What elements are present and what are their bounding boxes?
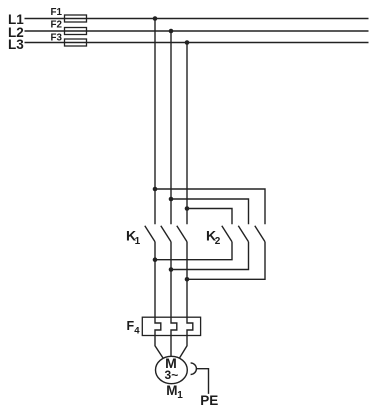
- svg-text:L3: L3: [8, 37, 24, 52]
- svg-text:1: 1: [135, 236, 141, 247]
- svg-text:1: 1: [177, 390, 183, 401]
- junction on L1: [153, 16, 158, 21]
- wire phase W drop (L3 to K1 contact): [186, 43, 188, 225]
- junction K2 return tap 1: [153, 257, 158, 262]
- svg-text:F: F: [127, 319, 135, 333]
- contactor K2 contact pole 2: [238, 226, 248, 242]
- wire K1 pole 1 to F4: [154, 242, 156, 318]
- svg-text:4: 4: [134, 325, 140, 336]
- motor M1 designator: [166, 383, 183, 401]
- junction on L2: [169, 29, 174, 34]
- contactor K2 contact pole 1: [222, 226, 232, 242]
- wire PE: [196, 369, 208, 394]
- wire L2 bus: [25, 30, 369, 32]
- contactor K1 contact pole 2: [161, 226, 171, 242]
- svg-text:3~: 3~: [165, 368, 179, 382]
- fuse F2: [51, 19, 87, 34]
- overload relay F4 heater element 2: [171, 317, 177, 335]
- wire K2 middle contact return to phase V: [171, 242, 249, 270]
- wire phase V drop (L2 to K1 contact): [170, 31, 172, 224]
- wire phase U drop (L1 to K1 contact): [154, 19, 156, 225]
- wire F4 to motor terminal U: [155, 336, 163, 359]
- overload relay F4 heater element 1: [155, 317, 161, 335]
- svg-text:F3: F3: [51, 32, 63, 43]
- wire K2 left contact return to phase U: [155, 242, 232, 260]
- motor M1 circle: [156, 356, 188, 383]
- wire L1 bus: [25, 18, 369, 20]
- wire crossover L2 to K2 middle contact: [171, 199, 249, 224]
- wire K2 right contact return to phase W: [187, 242, 265, 280]
- svg-text:2: 2: [215, 236, 221, 247]
- overload relay F4 box: [142, 317, 200, 335]
- svg-text:M: M: [166, 383, 177, 398]
- svg-text:F2: F2: [51, 19, 63, 30]
- PE terminal arc: [191, 363, 197, 375]
- wire F4 to motor terminal W: [180, 336, 188, 359]
- junction crossover tap 3: [185, 206, 190, 211]
- junction on L3: [185, 40, 190, 45]
- wire L3 bus: [25, 42, 369, 44]
- wire crossover L3 to K2 left contact: [187, 209, 232, 225]
- junction K2 return tap 3: [185, 277, 190, 282]
- overload relay F4 heater element 3: [187, 317, 193, 335]
- wire K1 pole 3 to F4: [186, 242, 188, 318]
- contactor K1 contact pole 1: [145, 226, 155, 242]
- overload relay F4 label: [127, 319, 141, 336]
- junction crossover tap 1: [153, 187, 158, 192]
- contactor K1 label: [126, 228, 141, 248]
- wire K1 pole 2 to F4: [170, 242, 172, 318]
- contactor K1 contact pole 3: [177, 226, 187, 242]
- contactor K2 label: [206, 228, 221, 248]
- junction crossover tap 2: [169, 197, 174, 202]
- svg-text:PE: PE: [200, 393, 218, 408]
- junction K2 return tap 2: [169, 267, 174, 272]
- fuse F1: [51, 7, 87, 22]
- contactor K2 contact pole 3: [255, 226, 265, 242]
- svg-text:F1: F1: [51, 7, 63, 18]
- wire F4 to motor terminal V: [170, 336, 172, 357]
- wire crossover L1 to K2 right contact: [155, 189, 265, 224]
- fuse F3: [51, 32, 87, 46]
